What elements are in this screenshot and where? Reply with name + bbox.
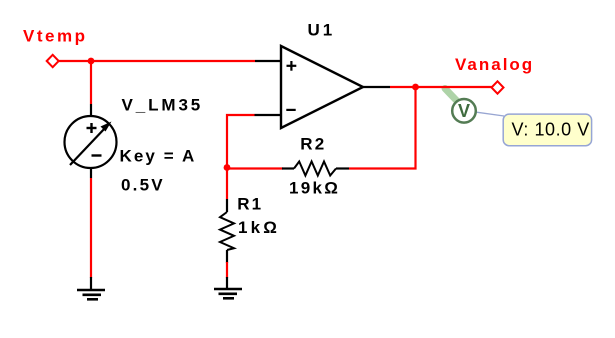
junction at output node (412, 84, 419, 91)
svg-text:19kΩ: 19kΩ (289, 178, 340, 197)
wire: node down to V_LM35 top (90, 61, 92, 104)
op-amp U1 (255, 46, 391, 128)
svg-text:1kΩ: 1kΩ (238, 218, 280, 237)
junction at R1/R2/feedback node (224, 164, 231, 171)
voltage source V_LM35 (65, 104, 117, 178)
svg-text:Vtemp: Vtemp (23, 27, 87, 46)
junction at Vtemp node (88, 58, 95, 65)
wire: op-amp output to Vanalog terminal (red) (390, 86, 492, 88)
resistor R2 (282, 162, 349, 176)
terminal Vanalog (diamond connector) (492, 81, 504, 93)
svg-text:R2: R2 (300, 135, 326, 154)
wire: R2 right lead to output node (red, with corner) (349, 87, 416, 169)
svg-text:Key = A: Key = A (120, 146, 197, 165)
svg-text:V: 10.0 V: V: 10.0 V (512, 119, 590, 139)
probe leader line to readout (light blue) (477, 112, 505, 116)
wire: node right to R2 left lead (227, 167, 283, 169)
probe pin (light green) (445, 89, 457, 102)
wire: V_LM35 bottom to left ground (90, 178, 92, 278)
svg-text:V_LM35: V_LM35 (122, 96, 204, 115)
svg-text:U1: U1 (308, 20, 336, 39)
wire: Vtemp terminal to op-amp + input (red) (59, 60, 255, 62)
wire: R1 bottom to ground (red) (226, 262, 228, 278)
svg-text:0.5V: 0.5V (121, 175, 165, 194)
svg-text:Vanalog: Vanalog (455, 55, 534, 74)
svg-text:R1: R1 (237, 195, 263, 214)
ground (left) (77, 277, 105, 299)
svg-text:V: V (458, 101, 470, 121)
probe body (V in green circle) (452, 99, 476, 123)
wire: node down to R1 (red) (226, 167, 228, 199)
ground (under R1) (214, 277, 242, 298)
terminal Vtemp (diamond connector) (47, 55, 59, 67)
probe readout V: 10.0 V (503, 114, 591, 146)
wire: feedback node up and right to op-amp - input (227, 115, 255, 167)
resistor R1 (220, 199, 234, 263)
